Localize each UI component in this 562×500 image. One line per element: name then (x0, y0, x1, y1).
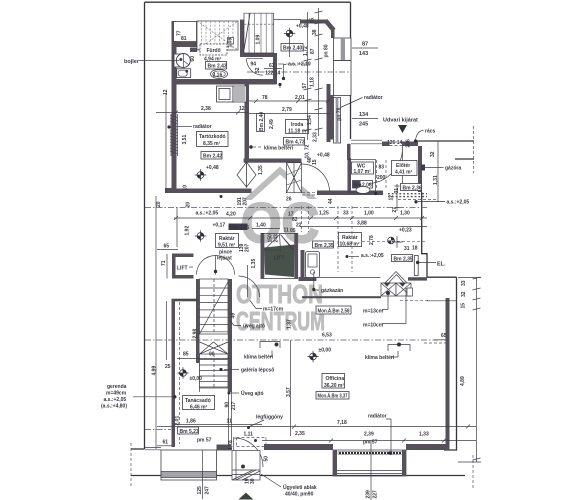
svg-text:11: 11 (284, 228, 290, 234)
svg-text:Tartózkodó: Tartózkodó (199, 134, 226, 140)
dim 71 lift (166, 254, 168, 279)
label Bm 2,42 (201, 152, 222, 160)
klima bracket officina (388, 343, 410, 351)
spiral stair corner (iroda SW) (287, 163, 302, 193)
svg-text:83: 83 (379, 165, 385, 171)
svg-text:4,41 m²: 4,41 m² (395, 170, 413, 176)
dim 4,99 left chain (155, 196, 157, 449)
svg-text:15: 15 (310, 18, 316, 24)
svg-text:Bm 2,35: Bm 2,35 (394, 257, 413, 263)
svg-text:57: 57 (302, 83, 308, 89)
alcove top line (316, 276, 381, 278)
bottom long line under facade (131, 475, 465, 477)
svg-text:125: 125 (197, 486, 203, 495)
svg-text:üveg ajtó: üveg ajtó (243, 324, 265, 330)
svg-text:143: 143 (359, 51, 368, 57)
svg-text:2,01: 2,01 (295, 95, 305, 101)
chimney boxes with X (381, 272, 413, 297)
door arc iroda south (302, 164, 330, 192)
wall bottom facade mid segment (264, 444, 333, 450)
svg-text:+0,48: +0,48 (317, 153, 330, 159)
wall iroda south stub (244, 159, 302, 163)
wall tartozkodo south (172, 189, 252, 194)
svg-text:+0,48: +0,48 (296, 24, 309, 30)
svg-text:2,98: 2,98 (193, 329, 199, 339)
svg-text:Bm 2,40: Bm 2,40 (283, 46, 302, 52)
svg-text:+0,23: +0,23 (399, 228, 412, 234)
dim row iroda y112 (249, 113, 330, 115)
dim row bottom y440 (262, 439, 476, 443)
svg-text:243: 243 (274, 234, 280, 243)
svg-text:Előtér: Előtér (396, 163, 410, 169)
svg-text:Bm 2,35: Bm 2,35 (315, 243, 334, 249)
wall wc block (348, 158, 352, 192)
dim line 25 (166, 301, 168, 360)
dim vertical 1,92 (176, 207, 178, 247)
svg-text:1,40: 1,40 (256, 223, 266, 229)
svg-text:1,72: 1,72 (303, 46, 309, 56)
boundary right upper (corridor east edge) (350, 2, 352, 139)
wall iroda east (327, 84, 331, 142)
window top-left (81/77) (174, 22, 197, 43)
survey cross raktar2 (388, 236, 403, 247)
right dim chain vertical (476, 277, 478, 462)
svg-text:40/40, pm90: 40/40, pm90 (285, 492, 314, 498)
radiator dotted strip in storefront (338, 451, 404, 455)
svg-text:49: 49 (231, 313, 237, 319)
dashdot bottom y429 (145, 429, 171, 431)
dim 125/247 stack (202, 450, 204, 499)
svg-text:3,16: 3,16 (213, 72, 223, 78)
svg-text:klíma beltéri: klíma beltéri (244, 355, 274, 361)
dashdot band y207 (145, 207, 427, 209)
svg-text:8,35 m²: 8,35 m² (203, 141, 221, 147)
svg-text:±0,00: ±0,00 (319, 348, 332, 354)
svg-text:31: 31 (394, 188, 400, 194)
stair door arc top (pince lejarat) (197, 256, 235, 275)
dashdot officina y339 (145, 339, 446, 341)
svg-text:11,18 m²: 11,18 m² (288, 129, 308, 135)
svg-text:1,09: 1,09 (256, 35, 262, 45)
svg-text:m=17cm: m=17cm (263, 307, 284, 313)
svg-text:radiátor: radiátor (364, 95, 383, 101)
boundary left (144, 2, 146, 449)
svg-text:1,08: 1,08 (228, 38, 234, 48)
svg-text:1,35: 1,35 (251, 259, 257, 269)
label Mon.A.Bm 3,37 (316, 392, 349, 400)
dim row iroda top y100 (249, 99, 330, 103)
label Bm 5,23 (178, 427, 199, 435)
racs dotted strip (388, 194, 427, 197)
dashed opening below spiral stair (302, 192, 317, 195)
svg-text:2,49: 2,49 (269, 119, 275, 129)
svg-text:a.s.:+2,05: a.s.:+2,05 (361, 253, 384, 259)
svg-text:4,20: 4,20 (226, 212, 236, 218)
svg-text:bojler: bojler (124, 59, 140, 65)
right dim chain top tick (458, 277, 481, 279)
courtyard line second (455, 158, 474, 160)
svg-text:87: 87 (310, 48, 316, 54)
svg-text:1,34: 1,34 (307, 115, 313, 125)
bathroom equipment white box (217, 86, 234, 102)
radiator hatch on left wall (170, 114, 178, 156)
tanacsado inner dashed line (179, 302, 181, 444)
svg-text:1,30: 1,30 (400, 211, 410, 217)
svg-text:71: 71 (161, 260, 167, 266)
wall tanacsado west (172, 299, 176, 447)
klima bracket tanacsado (260, 342, 280, 349)
wall bottom facade right segment (406, 444, 450, 450)
svg-text:6,53: 6,53 (322, 333, 332, 339)
svg-text:63: 63 (269, 63, 275, 69)
svg-text:LIFT: LIFT (274, 256, 285, 262)
main stair shaft (200, 279, 229, 388)
dashdot y64 (278, 63, 312, 65)
label Bm 2,40 top right (281, 44, 303, 52)
svg-text:Udvari kijárat: Udvari kijárat (383, 118, 418, 124)
svg-text:20: 20 (186, 202, 192, 208)
svg-text:18: 18 (412, 246, 418, 252)
label Bm 2,40 vertical (257, 112, 266, 132)
wall top-left room top band (172, 42, 198, 47)
label Bm 2,36 (401, 184, 422, 192)
wall bathroom bottom band (172, 79, 277, 85)
svg-text:11: 11 (227, 419, 233, 425)
svg-text:245: 245 (359, 122, 368, 128)
svg-text:247: 247 (205, 486, 211, 495)
svg-text:galéria lépcső: galéria lépcső (241, 368, 274, 374)
EL box (414, 256, 418, 276)
svg-text:22: 22 (296, 223, 302, 229)
svg-text:15: 15 (312, 159, 318, 165)
room label Raktar2 (339, 233, 362, 248)
svg-text:134: 134 (359, 112, 369, 118)
svg-text:217: 217 (231, 401, 237, 410)
dim row bottom y426 7,18 (157, 425, 476, 429)
wall right of stair block (273, 53, 277, 84)
svg-text:3,51: 3,51 (182, 135, 188, 145)
svg-text:44: 44 (328, 198, 334, 204)
room label Raktar1 (216, 234, 239, 249)
svg-text:3,88: 3,88 (357, 221, 367, 227)
svg-text:4,99: 4,99 (152, 366, 158, 376)
svg-text:81: 81 (181, 36, 187, 42)
svg-text:52: 52 (255, 67, 261, 73)
wall stub left of stairs (190, 48, 197, 53)
wall gazkazan room south (299, 277, 317, 281)
svg-text:Raktár: Raktár (342, 235, 358, 241)
svg-text:9,51 m²: 9,51 m² (218, 243, 236, 249)
svg-text:1,11: 1,11 (244, 432, 254, 438)
bottom north triangle (238, 493, 253, 500)
boiler circle (176, 54, 190, 68)
svg-text:2,78: 2,78 (369, 235, 375, 245)
svg-text:gázóra: gázóra (445, 166, 461, 172)
dim row raktar y219 (174, 216, 427, 220)
wall left exterior (172, 21, 177, 193)
svg-text:38: 38 (312, 29, 318, 35)
wall elotert north band (351, 140, 382, 144)
svg-text:Mon.Á.Bm 3,37: Mon.Á.Bm 3,37 (318, 393, 348, 400)
svg-text:Tanácsadó: Tanácsadó (185, 398, 211, 404)
svg-text:rács: rács (425, 129, 436, 135)
door arc m17 (239, 265, 260, 297)
svg-text:12: 12 (239, 106, 245, 112)
svg-text:1,31: 1,31 (433, 175, 439, 185)
svg-text:65: 65 (441, 333, 447, 339)
svg-text:1,78: 1,78 (228, 440, 234, 450)
boundary top (145, 1, 351, 3)
stair shaft east wall (228, 279, 232, 392)
svg-text:pm 57: pm 57 (197, 438, 212, 444)
svg-text:1,35: 1,35 (258, 165, 264, 175)
stair top-left treads (197, 21, 238, 50)
svg-text:32: 32 (461, 291, 467, 297)
svg-text:+0,17: +0,17 (213, 223, 226, 229)
gazkazan unit (306, 252, 320, 278)
wall stairwell west (196, 279, 200, 363)
wall bottom facade left segment (145, 448, 161, 450)
wall elotert east (418, 146, 422, 192)
svg-text:50: 50 (264, 456, 270, 462)
svg-text:1,07 m²: 1,07 m² (354, 169, 372, 175)
courtyard dashed vertical (473, 126, 475, 173)
svg-text:60: 60 (190, 56, 196, 62)
svg-text:2,01: 2,01 (175, 416, 181, 426)
boiler square (174, 54, 186, 67)
svg-text:Mon.Á.Bm 2,58: Mon.Á.Bm 2,58 (318, 308, 350, 315)
svg-text:Bm 2,42: Bm 2,42 (203, 154, 222, 160)
svg-text:122 14: 122 14 (265, 71, 281, 77)
wall stair divider vertical top (240, 20, 244, 53)
svg-text:3,57: 3,57 (286, 387, 292, 397)
svg-text:légfüggöny: légfüggöny (256, 415, 283, 421)
svg-text:Ügyeleti ablak: Ügyeleti ablak (283, 484, 317, 491)
svg-text:Bm 2,40: Bm 2,40 (259, 112, 265, 131)
room label Tartozkodo (197, 132, 229, 148)
svg-text:90: 90 (209, 352, 215, 358)
svg-text:2,39: 2,39 (364, 432, 374, 438)
svg-text:gerenda: gerenda (107, 384, 127, 390)
svg-text:EL.: EL. (437, 262, 446, 268)
svg-text:Raktár: Raktár (219, 236, 235, 242)
svg-text:1,25: 1,25 (319, 211, 329, 217)
wall left jog step (165, 188, 176, 193)
ellipse 3,16 (211, 70, 228, 79)
room label Eloter (392, 161, 418, 176)
svg-text:gázkazán: gázkazán (321, 288, 343, 294)
svg-text:1,86: 1,86 (186, 419, 196, 425)
svg-text:200: 200 (377, 175, 386, 181)
svg-text:4,89: 4,89 (460, 376, 466, 386)
dim row tartozkodo y112 (156, 111, 249, 115)
courtyard line at Eloter top (416, 140, 474, 142)
survey cross tartozkodo (195, 169, 206, 180)
svg-text:36,20 m²: 36,20 m² (324, 383, 344, 389)
svg-text:a.s.:+2,05: a.s.:+2,05 (104, 397, 127, 403)
second chain line x307.5 (307, 12, 309, 140)
wall officina north-right upper (408, 277, 427, 280)
svg-text:15: 15 (461, 303, 467, 309)
right column window upper (334, 38, 352, 61)
svg-text:a.s.:+2,05: a.s.:+2,05 (196, 211, 219, 217)
svg-text:2,35: 2,35 (295, 431, 305, 437)
label Bm 2,35 (313, 241, 334, 249)
officina NE step line (427, 300, 457, 302)
door frame lines below shaft (229, 392, 232, 444)
svg-text:27: 27 (392, 207, 398, 213)
svg-text:2,33: 2,33 (313, 132, 319, 142)
wall officina east (446, 298, 450, 446)
wall right column between windows (331, 95, 334, 140)
right column pillar (334, 61, 352, 96)
survey cross tanacsado (177, 367, 188, 378)
svg-text:1,92: 1,92 (185, 226, 191, 236)
svg-text:207: 207 (245, 243, 251, 252)
entrance steps bottom (232, 451, 260, 481)
wall elotert west (347, 144, 351, 160)
svg-text:227: 227 (373, 490, 379, 499)
survey cross officina (307, 351, 318, 362)
bottom right dashed vertical (472, 455, 474, 488)
svg-text:klíma beltéri: klíma beltéri (365, 355, 395, 361)
svg-text:6,46 m²: 6,46 m² (190, 405, 208, 411)
survey cross raktar1 (195, 230, 206, 241)
svg-text:206: 206 (406, 139, 412, 148)
dim row raktar y232 3,88 (300, 226, 427, 228)
svg-text:2,38: 2,38 (201, 106, 211, 112)
dim chain top right x314 (315, 8, 323, 136)
svg-text:05: 05 (290, 228, 296, 234)
lift door triangles (265, 235, 295, 251)
klima dot iroda (249, 145, 253, 149)
svg-text:2,79: 2,79 (282, 107, 292, 113)
svg-text:m=13cm: m=13cm (363, 309, 384, 315)
svg-text:207: 207 (243, 197, 249, 206)
wall officina north-left (302, 296, 381, 298)
svg-text:32: 32 (430, 151, 436, 157)
alcove left line (315, 277, 317, 281)
label Bm 2,35 inverse (229, 224, 250, 232)
wall gazkazan room west (301, 250, 305, 279)
svg-text:lejárat: lejárat (217, 256, 232, 262)
watermark dark quad (264, 245, 295, 278)
svg-text:20: 20 (156, 201, 162, 207)
WC room (348, 160, 376, 194)
label Bm 2,35 right (392, 255, 413, 263)
svg-text:90: 90 (225, 402, 231, 408)
watermark house roof (236, 167, 325, 337)
dashed line below flue (400, 299, 428, 301)
svg-text:61: 61 (163, 440, 169, 446)
svg-text:12: 12 (389, 195, 395, 201)
entrance door bottom arc (234, 437, 263, 470)
udvari kijarat triangle (398, 125, 407, 133)
dashdot corridor y72 (247, 71, 350, 73)
svg-text:Fürdő: Fürdő (207, 48, 221, 54)
svg-text:a.s.:+2,05: a.s.:+2,05 (447, 200, 470, 206)
svg-text:26: 26 (286, 197, 292, 203)
svg-text:(a.s.:+4,80): (a.s.:+4,80) (101, 404, 127, 410)
room label Furdo (200, 44, 227, 63)
elotert door arc (369, 146, 403, 184)
survey cross top (284, 28, 295, 39)
boundary left bottom jog (131, 448, 145, 450)
room label Tanacsado (183, 396, 215, 411)
wall chunk right of window (217, 445, 232, 451)
svg-text:94: 94 (251, 62, 257, 68)
svg-text:Officina: Officina (326, 376, 345, 382)
svg-text:12: 12 (163, 89, 169, 95)
right column window lower (334, 98, 341, 144)
small box on stair top (228, 38, 234, 45)
svg-text:Bm 2,43: Bm 2,43 (208, 64, 227, 70)
dim row tanacsado y424 (174, 424, 262, 426)
svg-text:239: 239 (366, 490, 372, 499)
label Bm 4,73 (284, 138, 305, 146)
dot on wall above a.s. line (220, 195, 223, 198)
svg-text:7,18: 7,18 (337, 420, 347, 426)
svg-text:OTTHON: OTTHON (236, 279, 323, 309)
svg-text:1,00: 1,00 (364, 211, 374, 217)
svg-text:m=10cm: m=10cm (363, 323, 384, 329)
bottom-left window (161, 450, 217, 480)
svg-text:Bm 2,36: Bm 2,36 (403, 186, 422, 192)
sink below boiler (177, 69, 191, 78)
svg-text:pn 80: pn 80 (324, 44, 330, 57)
wall right column upper (331, 28, 335, 38)
dim vertical 3,51 (165, 93, 167, 193)
svg-text:65: 65 (164, 244, 170, 250)
svg-text:25: 25 (165, 364, 171, 370)
dot above iroda wall (278, 83, 281, 86)
plumb line below survey cross (289, 39, 291, 57)
right boundary upper horizontal (422, 192, 457, 277)
svg-text:Bm 2,35: Bm 2,35 (230, 225, 249, 231)
dim 239/227 stack (370, 440, 372, 500)
svg-text:30: 30 (250, 478, 256, 484)
svg-text:Iroda: Iroda (291, 122, 303, 128)
svg-text:85: 85 (183, 352, 189, 358)
svg-text:pn 78: pn 78 (337, 107, 343, 120)
tartozkodo door triangles (237, 162, 256, 187)
svg-text:±0,00: ±0,00 (190, 376, 203, 382)
wall corridor south / raktar north (317, 191, 383, 196)
svg-text:10,68 m²: 10,68 m² (340, 242, 360, 248)
svg-text:78: 78 (262, 95, 268, 101)
wall lift left room (172, 254, 194, 279)
stair top-right treads (244, 13, 274, 53)
svg-text:radiátor: radiátor (193, 124, 212, 130)
svg-text:10: 10 (183, 185, 189, 191)
dashdot courtyard y202 (424, 201, 445, 203)
svg-text:+0,48: +0,48 (206, 165, 219, 171)
svg-text:10, 72: 10, 72 (305, 144, 311, 158)
elotert door opening dotted (377, 160, 387, 190)
svg-text:31: 31 (404, 246, 410, 252)
wall tanacsado north stub (172, 299, 200, 302)
wall below top stairs (240, 53, 274, 58)
room label Officina (322, 374, 345, 390)
svg-text:1,37: 1,37 (287, 319, 293, 329)
svg-text:radiátor: radiátor (368, 414, 387, 420)
room label Bm 2,43 (206, 62, 227, 70)
bathroom hatched box (233, 86, 247, 102)
opening details right of wall (395, 184, 400, 211)
right boundary vertical (444, 277, 457, 450)
svg-text:1,18: 1,18 (310, 77, 316, 87)
svg-text:1,33: 1,33 (419, 432, 429, 438)
